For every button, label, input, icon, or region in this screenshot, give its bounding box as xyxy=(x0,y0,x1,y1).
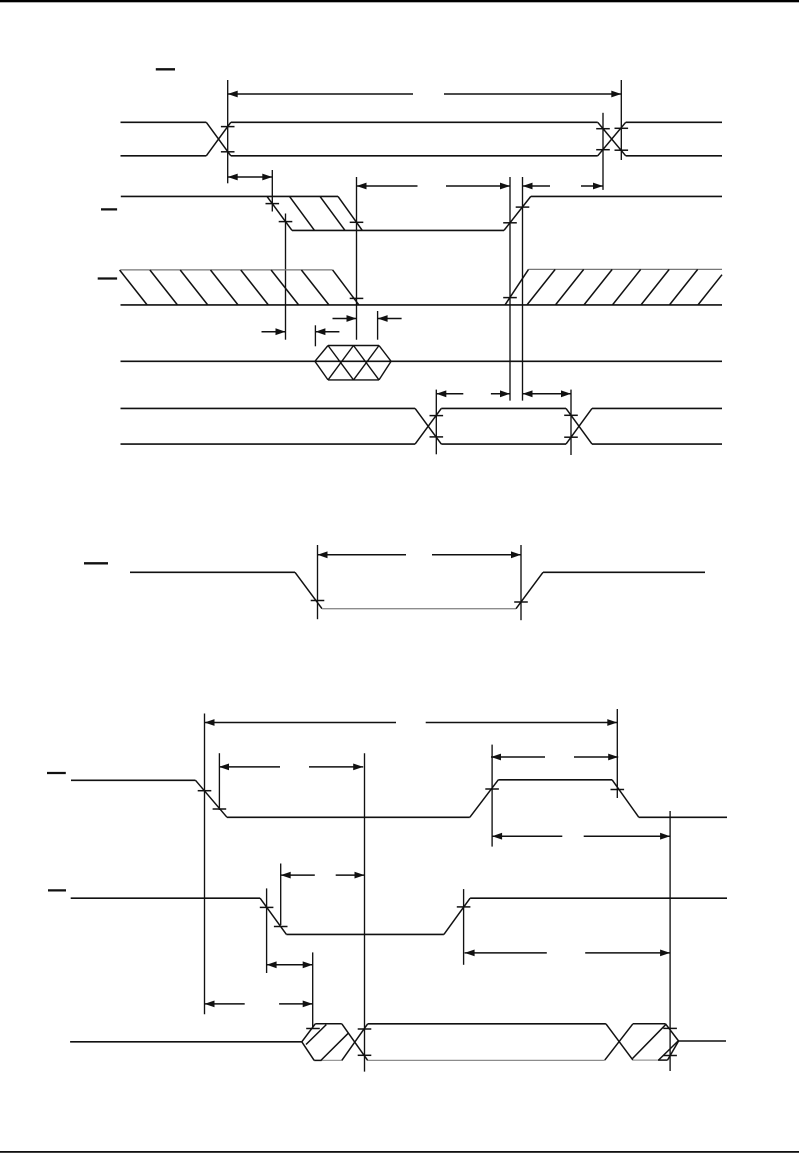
node: rowC right hatched hexagon xyxy=(633,1024,679,1060)
wire: row1 bus bottom-right xyxy=(626,155,722,157)
dimension line at x=521 xyxy=(520,545,522,620)
node: row5 right crossover X xyxy=(566,408,592,444)
edge: row2 falling xyxy=(267,196,292,230)
tick: row1 right X upper-right xyxy=(615,127,629,129)
wire: row5 bus top-right xyxy=(592,407,722,409)
hatch: row3 left band diagonals xyxy=(120,270,329,305)
dimension line at x=377.6 xyxy=(377,311,379,340)
dimension arrow: data setup xyxy=(436,390,510,397)
tick: rowB fall at x=266.6 xyxy=(260,906,274,908)
dimension line at x=317.5 xyxy=(317,545,319,619)
dimension arrow: rowA cycle time xyxy=(205,719,618,726)
overbar: rowB signal name xyxy=(48,889,66,891)
dimension line at x=227.7 xyxy=(227,80,229,183)
dimension line at x=272.3 xyxy=(271,170,273,212)
overbar: row2 signal name xyxy=(101,208,117,210)
hatch: row3 right band diagonals xyxy=(527,269,722,305)
hatch: row2 parallelogram line1 xyxy=(290,196,315,230)
dimension line at x=280.7 xyxy=(280,864,282,926)
tick: row3 rise edge xyxy=(503,297,517,299)
wire: row2 low level xyxy=(292,229,504,231)
node: rowC left hatched hexagon xyxy=(302,1024,349,1061)
wire: rowC bus top xyxy=(368,1023,606,1025)
tick: row1 right X upper-left xyxy=(596,128,610,130)
dimension arrow: data hold xyxy=(523,390,572,397)
dimension line at x=571 xyxy=(570,390,572,455)
edge: row3 left band falling xyxy=(333,270,359,305)
edge: row2 rising xyxy=(504,196,531,230)
tick: row1 left X upper xyxy=(221,126,235,128)
tick: rowC right hexagon upper xyxy=(663,1027,677,1029)
edge: row2 parallelogram right xyxy=(338,196,362,230)
edge: rowB falling xyxy=(260,898,286,934)
dimension line at x=621.3 xyxy=(620,80,622,160)
tick: rowB rise xyxy=(457,906,471,908)
wire: row5 bus bottom-mid xyxy=(441,443,566,445)
wire: row3 right band top (gray) xyxy=(529,268,723,270)
tick: row5 right X upper xyxy=(564,414,578,416)
overbar: rowA signal name xyxy=(47,772,66,774)
dimension line at x=219.4 xyxy=(218,753,220,810)
wire: row3 left band top (gray) xyxy=(121,269,333,271)
dimension line at x=617.3 xyxy=(616,709,618,798)
tick: rowA rise xyxy=(485,788,499,790)
tick: row1 right X lower-left xyxy=(596,149,610,151)
tick: row1 right X lower-right xyxy=(615,149,629,151)
dimension arrow: rowC setup xyxy=(205,1001,313,1008)
wire: diagram2 high right xyxy=(543,571,705,573)
tick: row2 rise at x=510 xyxy=(503,222,517,224)
wire: rowC bus bottom (gray) xyxy=(368,1059,605,1061)
edge: row3 right band rising xyxy=(505,269,529,305)
dimension arrow: rowA low width xyxy=(219,764,363,771)
tick: rowC right hexagon lower xyxy=(663,1055,677,1057)
wire: rowC idle right xyxy=(679,1040,726,1042)
dimension line at x=603 xyxy=(602,113,604,190)
node: row1 left crossover X xyxy=(206,122,231,156)
edge: rowA falling2 xyxy=(612,780,639,818)
wire: row2 high level left xyxy=(121,195,267,197)
wire: row5 bus top-mid xyxy=(441,407,566,409)
dimension arrow: delay row3-row4 right xyxy=(333,315,402,322)
overbar: row3 signal name xyxy=(98,277,117,279)
tick: rowC left hexagon edge xyxy=(306,1028,320,1030)
wire: row2 high level right xyxy=(531,195,722,197)
dimension arrow: rowA pulse width xyxy=(491,754,618,761)
dimension arrow: rowB high width xyxy=(465,950,670,957)
edge: diagram2 falling xyxy=(295,572,322,608)
edge: rowA rising xyxy=(470,780,499,818)
dimension arrow: rowA hold xyxy=(492,833,670,840)
dimension line at x=356.5 xyxy=(356,177,358,340)
wire: row5 bus bottom-right xyxy=(592,443,722,445)
dimension line at x=436.3 xyxy=(435,390,437,455)
wire: row5 bus bottom-left xyxy=(121,443,416,445)
wire: diagram2 low level (gray) xyxy=(322,608,516,610)
tick: row2 right edge xyxy=(350,221,364,223)
tick: row5 left X upper xyxy=(430,415,444,417)
dimension arrow: pulse width diagram2 xyxy=(318,551,522,558)
dimension line at x=315.4 xyxy=(314,325,316,346)
page footer rule xyxy=(0,1151,799,1153)
page header bar xyxy=(0,0,799,2)
node: rowC left crossover X xyxy=(342,1024,368,1061)
node: rowC right crossover X xyxy=(605,1024,633,1060)
dimension arrow: rowB delay xyxy=(281,872,365,879)
overbar: row1 signal name xyxy=(156,68,175,70)
dimension line at x=510 xyxy=(509,177,511,401)
wire: row5 bus top-left xyxy=(121,407,416,409)
hatch: row2 parallelogram line2 xyxy=(320,196,345,230)
tick: diagram2 fall xyxy=(311,600,325,602)
edge: rowB rising xyxy=(444,898,470,934)
wire: row2 parallelogram top xyxy=(267,195,338,197)
wire: row1 bus bottom-left xyxy=(121,155,207,157)
wire: rowA pulse top xyxy=(498,779,612,781)
tick: row5 right X lower xyxy=(564,436,578,438)
dimension arrow: address delay xyxy=(228,174,273,181)
tick: rowA fall2 xyxy=(611,789,625,791)
tick: rowB fall at x=280.7 xyxy=(274,926,288,928)
dimension line at x=285.5 xyxy=(285,214,287,340)
node: row1 right crossover X xyxy=(598,122,626,156)
wire: row3 bottom level xyxy=(121,304,723,306)
tick: row3 fall edge xyxy=(350,297,364,299)
tick: rowA fall at x=204.5 xyxy=(198,790,212,792)
tick: row2 rise at x=522.5 xyxy=(516,206,530,208)
wire: rowB high right xyxy=(470,897,727,899)
dimension line at x=522.5 xyxy=(522,177,524,401)
wire: rowB high left xyxy=(71,897,260,899)
dimension arrow: row2 hold xyxy=(523,183,604,190)
node: row5 left crossover X xyxy=(415,408,441,444)
tick: row1 left X lower xyxy=(221,151,235,153)
dimension line at x=266.6 xyxy=(266,888,268,973)
dimension line at x=492.1 xyxy=(491,745,493,847)
dimension arrow: rowB delay small xyxy=(267,961,313,968)
wire: rowC idle left xyxy=(70,1041,302,1043)
wire: rowA high left xyxy=(71,779,196,781)
wire: diagram2 high left xyxy=(130,571,295,573)
dimension line at x=364.5 xyxy=(364,753,366,1071)
dimension arrow: row2 low width xyxy=(357,183,511,190)
node: row4 crosshatched hexagon (invalid data) xyxy=(315,346,391,380)
tick: row5 left X lower xyxy=(430,436,444,438)
dimension line at x=463.6 xyxy=(463,889,465,965)
tick: row2 fall at x=285.5 xyxy=(279,221,293,223)
wire: row4 signal line xyxy=(121,360,723,362)
wire: row1 bus top-left xyxy=(121,121,207,123)
tick: rowA fall at x=219.4 xyxy=(213,808,227,810)
wire: row1 bus bottom-mid xyxy=(231,155,598,157)
tick: row2 fall at x=272.3 xyxy=(266,203,280,205)
dimension line at x=204.5 xyxy=(204,714,206,1015)
tick: rowC left X lower xyxy=(358,1054,372,1056)
wire: rowB low level xyxy=(286,933,444,935)
dimension arrow: delay row3-row4 left xyxy=(262,328,340,335)
wire: rowA low left xyxy=(227,816,470,818)
overbar: diagram2 signal name xyxy=(84,562,108,564)
edge: rowA falling1 xyxy=(196,780,228,817)
tick: diagram2 rise xyxy=(514,601,528,603)
edge: diagram2 rising xyxy=(516,572,543,608)
wire: row1 bus top-mid xyxy=(231,121,598,123)
dimension line at x=312.7 xyxy=(312,952,314,1028)
wire: row1 bus top-right xyxy=(626,121,722,123)
dimension arrow: cycle time (row1) xyxy=(228,91,622,98)
tick: rowC left X upper xyxy=(358,1028,372,1030)
dimension line at x=670.1 xyxy=(669,811,671,1071)
wire: rowA low right xyxy=(639,816,727,818)
